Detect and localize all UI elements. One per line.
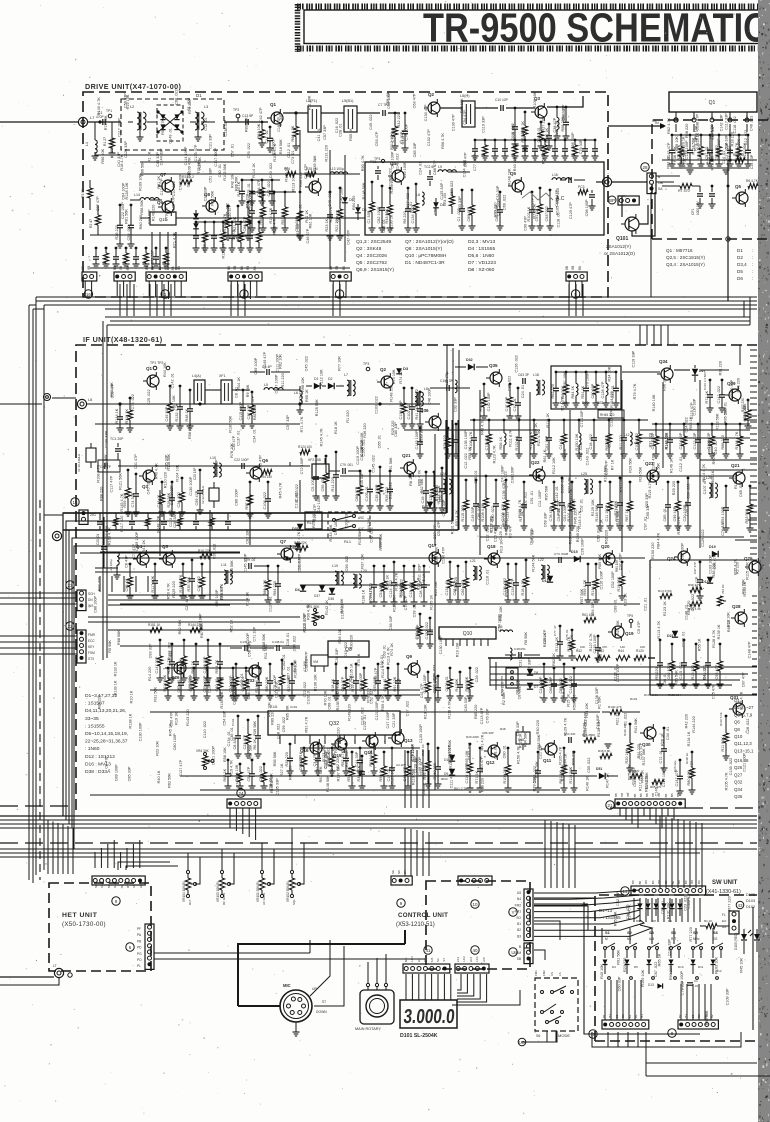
R46 22K: [296, 545, 308, 550]
svg-text:FL: FL: [722, 913, 726, 917]
svg-text:L13 100μ: L13 100μ: [330, 167, 344, 171]
inductor L8 drive: [422, 192, 424, 205]
IC Q32: [268, 711, 400, 735]
svg-text:S6: S6: [713, 930, 719, 935]
svg-text:3.000.0: 3.000.0: [402, 1006, 455, 1028]
svg-text:L11: L11: [221, 563, 227, 567]
svg-text:B3: B3: [517, 934, 521, 938]
R 5 560 resistor: [735, 157, 745, 162]
svg-text:R66 220: R66 220: [336, 728, 340, 742]
svg-text:R144 220: R144 220: [692, 716, 696, 732]
svg-text:R1 27: R1 27: [103, 137, 107, 146]
svg-text:C77 .47: C77 .47: [553, 625, 557, 636]
svg-text:R97 1K: R97 1K: [245, 496, 249, 509]
svg-text:Q1,3 : 2SC2549: Q1,3 : 2SC2549: [356, 239, 391, 245]
control bottom connector R: [455, 964, 489, 973]
svg-text:C1: C1: [694, 979, 698, 983]
Q29 transistor: [729, 389, 741, 401]
svg-text::: :: [752, 269, 753, 274]
resistor R6 4.7K PA: [748, 183, 758, 188]
svg-text:C116 100P: C116 100P: [465, 764, 469, 783]
svg-text:R144 1K: R144 1K: [591, 580, 595, 595]
svg-text:L18: L18: [533, 373, 539, 377]
Q22 transistor: [533, 469, 545, 481]
svg-text:VR104 10K(B): VR104 10K(B): [182, 881, 186, 902]
IF vertical trunk thick: [446, 420, 448, 513]
svg-text:SC: SC: [423, 958, 427, 962]
svg-text:(X53-1210-51): (X53-1210-51): [396, 922, 435, 928]
svg-text:R99 220: R99 220: [572, 751, 576, 765]
wire bundle bus to HET connector: [47, 820, 49, 874]
svg-text:R26 220: R26 220: [115, 225, 119, 239]
drive vertical x330: [329, 150, 331, 268]
wire HET conn6 b: [154, 952, 310, 954]
inductor L14: [140, 198, 159, 200]
Q6 emitter: [249, 481, 252, 484]
LED D103 sym: [754, 934, 760, 940]
Q4 Q5 networks: [129, 563, 132, 566]
svg-text:Q5: Q5: [162, 544, 169, 549]
PA rail y160: [662, 159, 756, 161]
left vertical bus 2: [32, 309, 34, 883]
diode D6 drive: [355, 207, 361, 213]
svg-text:D21: D21: [667, 634, 674, 638]
svg-text:10: 10: [472, 902, 478, 907]
svg-text:L7: L7: [344, 373, 348, 377]
relay contact dashed box: [328, 512, 370, 538]
Q24 transistor: [678, 551, 690, 563]
drive rail y268: [90, 267, 350, 269]
svg-text::: :: [752, 248, 753, 253]
IF FET Q1: [147, 375, 159, 387]
left vertical bus 3: [35, 297, 37, 875]
svg-text:Q35: Q35: [489, 363, 498, 368]
IF rail y466: [118, 465, 310, 467]
SW bottom connector 15: [602, 1020, 649, 1029]
SW conn 8 number: [668, 1029, 676, 1037]
inductor L1 shunt: [94, 122, 96, 140]
drive sub-box: [365, 162, 604, 235]
filter L5(B1): [344, 106, 357, 132]
IC Q8 IF: [328, 641, 369, 657]
connector number 28: [641, 163, 649, 171]
connector 23 wires: [0, 592, 77, 594]
transistor Q2 3SK48: [428, 102, 440, 114]
C65 .01: [373, 565, 376, 568]
svg-text:C66 .022: C66 .022: [461, 580, 465, 595]
bus wire A3: [44, 304, 757, 306]
svg-text:L3: L3: [204, 105, 208, 109]
control top connector B: [458, 876, 492, 885]
SW unit dashed box: [595, 895, 757, 1041]
svg-text:R108 4.7K: R108 4.7K: [481, 503, 485, 521]
svg-text:Rn3 470K: Rn3 470K: [658, 589, 673, 593]
svg-text:D15: D15: [571, 550, 578, 554]
wire bundle bus to SW connector: [659, 816, 661, 888]
drive unit dashed box: [83, 92, 608, 297]
svg-text:R133: R133: [630, 697, 638, 701]
svg-text:C17 33P: C17 33P: [505, 396, 509, 411]
svg-text:PB: PB: [137, 939, 141, 943]
wire below SW 1: [592, 1032, 741, 1047]
svg-text:R129 4.7K: R129 4.7K: [563, 717, 567, 735]
Q10 IC: [439, 627, 496, 639]
transistor Q4 drive: [392, 170, 404, 182]
svg-text:R62 1K: R62 1K: [223, 768, 227, 781]
svg-text:Q34: Q34: [659, 359, 668, 364]
D36 D37 D38 diodes: [319, 585, 325, 591]
svg-text:L6(H): L6(H): [460, 94, 470, 98]
svg-text:D51: D51: [596, 767, 602, 771]
svg-text:8B: 8B: [614, 793, 618, 797]
D32 diode: [468, 364, 474, 370]
D17 diode: [427, 502, 433, 508]
IF link y690: [150, 689, 420, 691]
main rotary pins: [366, 983, 369, 986]
svg-text:C82 47P: C82 47P: [341, 676, 345, 691]
connector B/OB/SA: [647, 173, 656, 194]
control bottom connector L: [403, 964, 450, 973]
R95 3.3K: [690, 601, 702, 606]
C1 47P IF: [119, 403, 122, 406]
IF mid horizontal x100-430 y545: [63, 545, 300, 547]
page-wide dashed rule: [0, 842, 757, 844]
svg-text:R151 1K: R151 1K: [148, 623, 161, 627]
TP5: [629, 619, 633, 623]
v53 2K pot: [717, 596, 722, 606]
R142 R143 net: [159, 639, 162, 642]
relay RL1 box: [305, 512, 322, 529]
Q10 left caps: [429, 617, 432, 620]
svg-text:VR102 50K(B): VR102 50K(B): [286, 881, 290, 902]
svg-text:10K: 10K: [640, 645, 645, 649]
diode D3 IF: [396, 368, 402, 374]
Q23 networks: [599, 481, 602, 484]
svg-text:R18 4.7K: R18 4.7K: [521, 579, 525, 595]
Q33 transistor: [249, 665, 261, 677]
transformer L3: [195, 112, 198, 130]
control top connector A: [391, 876, 412, 885]
IF left-bottom stubs: [99, 576, 101, 592]
SW routing loop: [584, 902, 700, 1034]
C74 .01 branch: [597, 635, 600, 638]
svg-text:8B: 8B: [670, 794, 674, 798]
svg-text:ST: ST: [322, 1000, 326, 1004]
IF horizontal mid: [108, 594, 268, 596]
vertical nested right: [489, 658, 491, 686]
resistor R3 56: [87, 188, 92, 198]
IF rail y537: [480, 536, 744, 538]
svg-text:8B: 8B: [664, 794, 668, 798]
drive rail y155: [95, 154, 300, 156]
left vertical bus 5: [102, 321, 104, 660]
svg-text:SA: SA: [658, 187, 663, 191]
left vertical bus 6: [106, 325, 108, 658]
svg-text:22: 22: [67, 624, 73, 629]
MIC wire to control: [238, 944, 405, 960]
svg-text:MIC: MIC: [283, 983, 291, 988]
IF horizontal mid2: [88, 616, 300, 618]
PA conn vertical to bus: [650, 192, 652, 297]
svg-text:8B: 8B: [633, 794, 637, 798]
IF long vertical x300: [299, 480, 301, 512]
svg-text:Q6,9 : 2S1815(Y): Q6,9 : 2S1815(Y): [356, 267, 394, 273]
D19 diode: [712, 551, 718, 557]
IF row E fill network: [652, 423, 750, 425]
svg-text:Q101: Q101: [616, 236, 628, 242]
Q18 transistor: [488, 553, 500, 565]
display wires: [405, 974, 407, 1000]
C22 100P: [241, 463, 243, 469]
svg-text:LC: LC: [417, 958, 421, 962]
connector number 4: [335, 290, 343, 298]
svg-text:C1 33P: C1 33P: [367, 210, 371, 223]
svg-text:M: M: [605, 937, 608, 941]
right margin hatch ladder 2: [752, 595, 757, 597]
drive misc RC row: [195, 221, 198, 224]
svg-text:Q21: Q21: [402, 453, 411, 458]
Q22 networks: [465, 479, 468, 482]
R94 150 arrow: [262, 469, 272, 474]
svg-text:FM1: FM1: [534, 970, 538, 976]
svg-text:C1 .022: C1 .022: [623, 713, 627, 726]
D14 diode: [547, 576, 553, 582]
svg-text:8B: 8B: [626, 793, 630, 797]
svg-text:22~25,28~31,36,37: 22~25,28~31,36,37: [85, 739, 128, 745]
svg-text:R29 220: R29 220: [285, 752, 289, 766]
svg-text:N6: N6: [627, 937, 631, 941]
svg-text:3: 3: [711, 115, 713, 119]
L16 CFY455: [506, 668, 518, 688]
connector 24 wires: [229, 808, 231, 828]
wire below SW 3: [646, 1062, 757, 1064]
nested routing wire 6: [71, 553, 240, 853]
svg-text:D5~10,14,15,18,19,: D5~10,14,15,18,19,: [85, 731, 128, 737]
svg-text:R42 220: R42 220: [685, 714, 689, 728]
svg-text:D14: D14: [542, 579, 549, 583]
IF trunk thick 1: [63, 512, 446, 514]
svg-text:HET UNIT: HET UNIT: [62, 912, 98, 919]
svg-text:A9C: A9C: [358, 516, 365, 520]
transistor Q6: [309, 181, 321, 193]
left vertical bus 4: [43, 305, 45, 870]
svg-text:C102 .01: C102 .01: [407, 404, 411, 419]
svg-text:SCH: SCH: [88, 592, 95, 596]
bus wire A4: [105, 308, 757, 310]
C191 branches: [289, 743, 292, 746]
drive rail y218: [190, 217, 365, 219]
svg-text:L38 100μ: L38 100μ: [109, 559, 113, 572]
svg-text:D8: D8: [652, 919, 656, 923]
R130 47K: [610, 709, 622, 714]
C139 .01 C138 .04: [244, 645, 246, 651]
svg-text:S6: S6: [536, 1034, 540, 1038]
resistor R6 shunt: [295, 112, 298, 115]
svg-text:C73 .022: C73 .022: [485, 435, 489, 450]
svg-text:L8: L8: [416, 193, 420, 197]
trimmer TC2 6P: [427, 176, 433, 178]
connector number 1: [161, 290, 169, 298]
nested routing wire 1: [63, 420, 446, 816]
Q32 left parts: [237, 715, 240, 718]
Q8 bias parts: [227, 205, 230, 208]
XF2 455 filter: [312, 464, 329, 478]
mixer D1 outer dashed box: [121, 99, 224, 150]
svg-text:R90 1K: R90 1K: [379, 768, 383, 781]
svg-text:Q22: Q22: [531, 460, 540, 465]
svg-text:R120: R120: [636, 649, 644, 653]
Q30 bias: [629, 723, 632, 726]
input jack L7: [78, 117, 87, 126]
PA vertical rail: [727, 160, 729, 239]
R81 15K: [621, 561, 624, 564]
svg-text:Q14: Q14: [364, 750, 373, 755]
PA vertical to bus: [727, 239, 729, 301]
connector wires to bus: [230, 281, 232, 296]
svg-text:8B: 8B: [639, 794, 643, 798]
wire conn U to mode: [534, 950, 545, 960]
Q21 drain net: [425, 471, 428, 474]
svg-text:D12 : 1S1212: D12 : 1S1212: [85, 754, 115, 760]
svg-text:C85 .01: C85 .01: [177, 679, 181, 692]
svg-text:U5: U5: [517, 891, 521, 895]
R46 680K: [584, 737, 596, 742]
svg-text:US: US: [550, 972, 554, 976]
svg-text:Q7 : 2SA1012(Y)or(O): Q7 : 2SA1012(Y)or(O): [405, 239, 454, 245]
SW C1 cap: [687, 982, 693, 984]
pot wires up: [187, 853, 189, 870]
svg-text:IN: IN: [655, 121, 659, 125]
C155 3P: [446, 385, 448, 391]
Q26 transistor: [174, 662, 186, 674]
svg-text:D18: D18: [702, 580, 709, 584]
svg-text:Q30: Q30: [642, 742, 651, 747]
Q3 base caps: [514, 107, 517, 110]
R64 220 R65 470: [630, 773, 642, 778]
svg-text:C51 47P: C51 47P: [247, 766, 251, 781]
svg-text:X1 30.43MHz: X1 30.43MHz: [77, 453, 81, 472]
svg-text:R62 220: R62 220: [551, 384, 555, 398]
IF FET Q2: [381, 376, 393, 388]
L12 coil: [630, 432, 632, 445]
svg-text:R108 4.7K: R108 4.7K: [469, 431, 473, 449]
svg-text:Q7: Q7: [280, 539, 287, 544]
bus wire A2: [36, 300, 757, 302]
wire Y conn to mode: [534, 921, 560, 940]
svg-text:CF1: CF1: [691, 208, 695, 215]
R42-R120 chain: [560, 657, 576, 659]
Q14 transistor: [366, 735, 378, 747]
svg-text:B0: B0: [690, 880, 694, 884]
connector number 16: [84, 290, 92, 298]
title block hatched outer border: [297, 4, 770, 10]
svg-text:N4: N4: [517, 897, 521, 901]
svg-text:LC5: LC5: [482, 957, 486, 963]
svg-text:Q16: Q16: [300, 748, 309, 753]
svg-text:R44: R44: [618, 649, 624, 653]
R19 2.2K net: [267, 565, 270, 568]
svg-text:Q21: Q21: [731, 463, 740, 468]
pot wires tap: [195, 857, 200, 884]
svg-text:C99 47P: C99 47P: [195, 490, 199, 505]
svg-text:D5,6 : 1N60: D5,6 : 1N60: [468, 253, 494, 259]
C79 .001: [342, 468, 344, 474]
test point TP1: [108, 114, 112, 118]
svg-text:C47 100P: C47 100P: [386, 711, 390, 728]
Q13-16 bias parts: [351, 751, 354, 754]
X2 crystal: [209, 488, 219, 501]
svg-text:R35 56K: R35 56K: [187, 576, 191, 591]
wire Q1 to L4: [283, 112, 308, 114]
capacitor C1 470P: [102, 119, 104, 125]
svg-text:C147 33P: C147 33P: [155, 656, 159, 673]
resistor R31 5.2: [180, 179, 192, 184]
connector wires to bus: [568, 281, 570, 296]
svg-text:R56 10K: R56 10K: [223, 747, 227, 762]
svg-text:L1: L1: [85, 142, 89, 146]
svg-text:Q1: Q1: [709, 100, 716, 106]
svg-text:VM: VM: [313, 660, 318, 664]
drive verticals to conn: [151, 232, 153, 270]
svg-text:AF GAIN: AF GAIN: [262, 893, 266, 905]
Q3 collector tank: [547, 106, 565, 108]
svg-text:XF2 455: XF2 455: [308, 458, 321, 462]
svg-text:R132 1K: R132 1K: [515, 435, 519, 450]
C8 0P cap top: [266, 369, 268, 375]
IF long vertical x160: [159, 490, 161, 556]
C48 .051: [518, 652, 520, 658]
bottom bus wire B1: [0, 815, 757, 817]
svg-text:C22 100P: C22 100P: [234, 458, 249, 462]
D4 diode IF: [300, 585, 306, 591]
IF vertical bundle above control: [404, 750, 406, 808]
svg-text:L14: L14: [134, 193, 140, 197]
svg-text:Q10: Q10: [463, 631, 473, 637]
svg-text:FM2: FM2: [542, 970, 546, 976]
mixer D1 inner dashed box: [157, 105, 183, 141]
svg-text:C129 100P: C129 100P: [390, 765, 394, 784]
svg-text:TP1: TP1: [106, 109, 112, 113]
Q1 bias network: [261, 121, 264, 124]
svg-text:TP2: TP2: [233, 108, 239, 112]
svg-text:C44 33P: C44 33P: [355, 751, 359, 766]
MIC wires: [238, 1005, 280, 1007]
svg-text:R63 56K: R63 56K: [745, 508, 749, 523]
circled U: [509, 948, 517, 956]
wire bundle bus to CONTROL connector: [404, 828, 406, 876]
Q6 network: [299, 191, 302, 194]
svg-text:A3.10V: A3.10V: [396, 763, 406, 767]
svg-text:MC: MC: [404, 958, 408, 963]
R45 6.8K: [600, 753, 612, 758]
D21 diode: [672, 631, 678, 637]
PA unit dashed box: [652, 120, 770, 239]
svg-text:D2: D2: [328, 377, 333, 381]
svg-text:RT 470: RT 470: [678, 189, 690, 193]
Q35 transistor: [490, 372, 502, 384]
svg-text:D7 : VD1223: D7 : VD1223: [468, 260, 496, 266]
svg-text:L5: L5: [264, 383, 268, 387]
IF long vertical x663: [662, 382, 664, 468]
svg-text:D105 (RED): D105 (RED): [734, 933, 738, 950]
svg-text:RL1: RL1: [344, 540, 351, 544]
svg-text:R63 10K: R63 10K: [257, 123, 261, 138]
svg-text:D1: D1: [737, 248, 743, 253]
svg-text:R116 220: R116 220: [697, 144, 701, 160]
svg-text:Q36: Q36: [734, 794, 743, 799]
wire below SW 2: [645, 1032, 647, 1076]
svg-text:IN: IN: [652, 119, 656, 123]
